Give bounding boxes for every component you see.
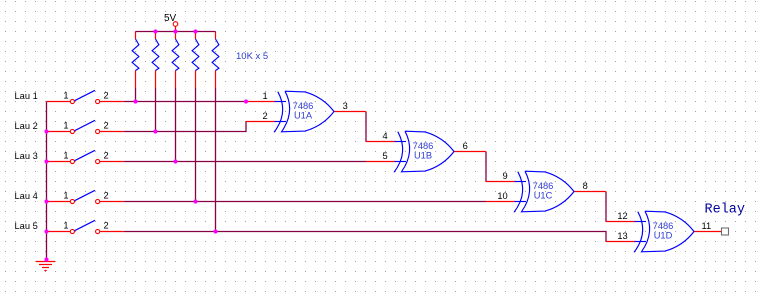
svg-text:7486: 7486: [533, 181, 554, 191]
svg-text:1: 1: [63, 221, 68, 231]
svg-text:9: 9: [503, 171, 508, 181]
svg-text:12: 12: [617, 211, 627, 221]
svg-text:2: 2: [263, 111, 268, 121]
svg-text:2: 2: [104, 91, 109, 101]
svg-text:5V: 5V: [164, 13, 177, 24]
svg-text:Relay: Relay: [705, 203, 746, 218]
svg-text:2: 2: [104, 191, 109, 201]
svg-text:Lau 1: Lau 1: [15, 91, 38, 101]
svg-text:U1A: U1A: [294, 111, 313, 121]
svg-text:U1D: U1D: [654, 231, 673, 241]
svg-text:6: 6: [463, 141, 468, 151]
svg-text:5: 5: [383, 151, 388, 161]
svg-text:7486: 7486: [413, 141, 434, 151]
svg-text:13: 13: [617, 231, 627, 241]
svg-text:Lau 5: Lau 5: [15, 221, 38, 231]
svg-text:11: 11: [702, 221, 712, 231]
svg-text:8: 8: [583, 181, 588, 191]
svg-text:Lau 4: Lau 4: [15, 191, 38, 201]
svg-text:1: 1: [263, 91, 268, 101]
svg-text:2: 2: [104, 151, 109, 161]
svg-text:10K x 5: 10K x 5: [236, 51, 268, 62]
svg-text:1: 1: [63, 121, 68, 131]
svg-text:1: 1: [63, 191, 68, 201]
svg-text:2: 2: [104, 221, 109, 231]
svg-text:2: 2: [104, 121, 109, 131]
svg-text:10: 10: [497, 191, 507, 201]
svg-text:7486: 7486: [293, 101, 314, 111]
svg-text:Lau 2: Lau 2: [15, 121, 38, 131]
svg-text:Lau 3: Lau 3: [15, 151, 38, 161]
svg-text:1: 1: [63, 91, 68, 101]
svg-text:7486: 7486: [653, 221, 674, 231]
svg-text:U1C: U1C: [534, 191, 553, 201]
svg-text:1: 1: [63, 151, 68, 161]
svg-text:4: 4: [383, 131, 388, 141]
svg-text:U1B: U1B: [414, 151, 432, 161]
svg-text:3: 3: [343, 101, 348, 111]
